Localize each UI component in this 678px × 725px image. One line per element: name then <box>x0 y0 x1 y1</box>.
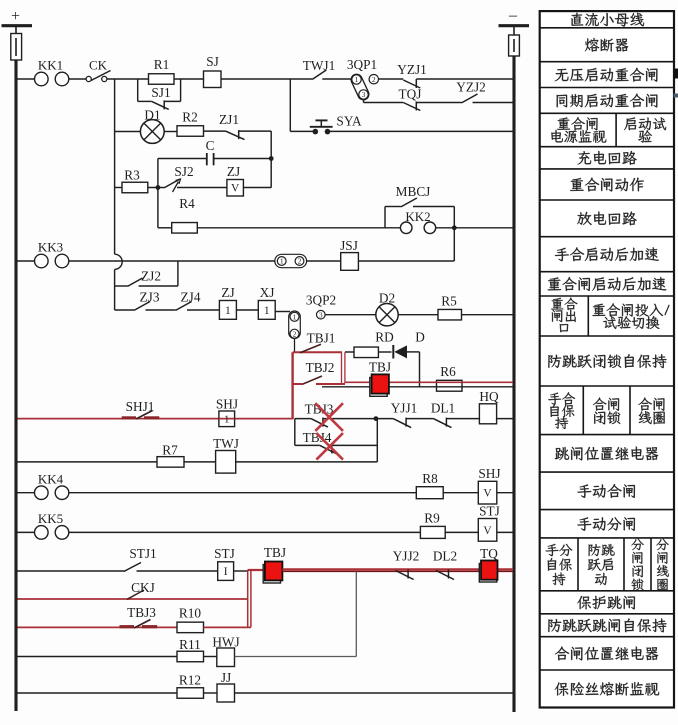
svg-text:CK: CK <box>89 58 108 73</box>
relay coil ZJ (current 1) <box>219 301 236 320</box>
wire R1 to SJ <box>174 78 204 80</box>
svg-text:YJJ1: YJJ1 <box>391 401 418 416</box>
svg-text:KK1: KK1 <box>38 58 63 73</box>
power bus - (right DC bus) <box>499 7 530 712</box>
contact YJJ2 <box>396 570 414 580</box>
legend cell: 启动试验 <box>624 117 666 142</box>
legend cell: 分闸闭锁 <box>631 539 643 591</box>
wire ZJ3 to ZJ4 <box>146 309 176 311</box>
svg-text:+: + <box>11 8 20 25</box>
label ZJ3 <box>140 290 160 305</box>
label STJ-I <box>214 546 235 561</box>
legend table frame <box>540 11 674 707</box>
svg-text:1: 1 <box>355 75 359 84</box>
legend cell: 合闸闭锁 <box>593 398 620 425</box>
label YJJ2 <box>393 549 420 564</box>
label RD <box>375 330 394 345</box>
contact ZJ1 (NC) <box>226 130 245 140</box>
contact TWJ1 <box>312 70 326 79</box>
wire SJ to TWJ1 <box>221 78 312 80</box>
wire SJ2 to ZJ coil <box>177 187 227 189</box>
svg-text:I: I <box>224 566 228 578</box>
svg-text:D1: D1 <box>144 108 160 123</box>
node TBJ3-YJJ1 junction <box>374 416 379 421</box>
label TQJ <box>399 87 422 102</box>
legend row text: 熔断器 <box>585 38 628 52</box>
svg-text:ZJ3: ZJ3 <box>140 290 160 305</box>
label JSJ <box>340 238 358 253</box>
wire diode to R6 row <box>407 352 420 387</box>
wire TBJ3 row <box>295 419 311 446</box>
contact YZJ2 <box>462 94 478 103</box>
svg-text:ZJ: ZJ <box>221 285 234 300</box>
contact CKJ <box>127 590 144 599</box>
switch contact KK3 <box>35 240 69 268</box>
legend row text: 防跳跃跳闸自保持 <box>548 618 666 632</box>
wire ZJ coil to corner <box>243 187 271 189</box>
svg-text:R5: R5 <box>441 294 457 309</box>
contact YZJ1 (NC) <box>403 79 420 88</box>
label R1 <box>154 57 170 72</box>
contact SHJ1 (red pads) <box>122 411 160 420</box>
relay coil XJ <box>258 301 275 320</box>
wire YZJ1 to right bus <box>416 78 513 80</box>
legend row text: 同期启动重合闸 <box>557 94 658 108</box>
signal lamp D2 <box>376 304 398 326</box>
label R11 <box>179 637 201 652</box>
wire vert to ZJ3 <box>115 309 134 311</box>
svg-text:2: 2 <box>293 329 297 338</box>
legend row text: 保险丝熔断监视 <box>555 682 659 696</box>
legend cell: 重合闸投入试验切换 <box>592 303 669 329</box>
label TBJ4 <box>303 430 332 445</box>
wire JJ to right bus <box>235 692 514 694</box>
wire left-bus to KK5 <box>18 531 35 533</box>
diode D <box>393 345 407 359</box>
label CKJ <box>131 580 155 595</box>
arrow of SJ2 time contact <box>173 179 181 192</box>
label D <box>415 330 425 345</box>
legend col splits row13 <box>583 386 630 435</box>
connector 3QP2 pin 2 <box>290 329 299 338</box>
legend cell: 重合闸出口 <box>551 298 577 333</box>
connector 3QP2 pin 3 <box>317 310 326 319</box>
svg-text:2: 2 <box>372 75 376 84</box>
svg-text:R2: R2 <box>182 110 198 125</box>
node KK2-MBCJ junction <box>452 225 457 230</box>
wire R2 to ZJ1 <box>204 130 226 132</box>
svg-text:V: V <box>231 183 240 195</box>
edge artifact marks <box>674 69 678 98</box>
label TBJ1 <box>307 331 336 346</box>
resistor R6 <box>437 380 463 391</box>
svg-text:3QP2: 3QP2 <box>306 293 336 308</box>
wire bus-vert to R3 <box>115 187 122 189</box>
legend row text: 手合启动后加速 <box>555 247 659 261</box>
svg-text:R9: R9 <box>424 511 440 526</box>
label DL2 <box>433 549 457 564</box>
wire ZJ2 up to KK3 row <box>139 261 178 286</box>
svg-text:3: 3 <box>362 90 366 99</box>
wire TQJ to YZJ2 <box>416 102 461 104</box>
wire left-bus JJ row <box>18 692 178 694</box>
switch contact KK1 <box>35 58 69 86</box>
label R3 <box>124 168 140 183</box>
svg-text:ZJ: ZJ <box>227 164 240 179</box>
svg-text:DL1: DL1 <box>431 401 455 416</box>
svg-text:3: 3 <box>319 310 323 319</box>
label STJ-V <box>479 504 500 519</box>
label XJ <box>260 285 275 300</box>
resistor R9 <box>420 526 445 538</box>
relay coil TBJ (series, red) <box>370 374 389 396</box>
wire YZJ2 to right bus <box>473 102 514 104</box>
legend row text: 跳闸位置继电器 <box>555 447 659 461</box>
svg-text:SJ: SJ <box>206 54 219 69</box>
resistor R11 <box>177 651 204 662</box>
contact TBJ3 lower (red pads) <box>120 620 158 629</box>
wire R4 to KK2 <box>197 227 400 229</box>
legend cell: 手分自保持 <box>546 544 573 586</box>
label TBJ3 lower <box>127 605 156 620</box>
legend row text: 手动分闸 <box>577 517 635 531</box>
wire HQ to right bus <box>497 418 513 420</box>
legend row text: 重合闸动作 <box>570 178 644 192</box>
wire R12 to JJ <box>204 692 218 694</box>
legend row text: 重合闸启动后加速 <box>548 277 667 291</box>
label R12 <box>179 673 201 688</box>
legend col splits row17 <box>578 538 651 591</box>
svg-text:TWJ1: TWJ1 <box>303 58 336 73</box>
label HWJ <box>212 635 239 650</box>
wire YJJ1 lead <box>376 418 393 420</box>
svg-text:1: 1 <box>264 305 270 317</box>
svg-text:CKJ: CKJ <box>131 580 155 595</box>
contact SJ1 (NC, shorts R1) <box>152 100 169 109</box>
wire SJ-TWJ1 node down to SYA row <box>290 79 313 131</box>
svg-text:SJ2: SJ2 <box>174 164 193 179</box>
label YZJ1 <box>397 62 427 77</box>
legend row text: 合闸位置继电器 <box>555 647 658 661</box>
switch contact KK5 <box>35 511 69 539</box>
wire KK3 to connector <box>69 260 276 262</box>
wire left-bus to KK4 <box>18 492 35 494</box>
wire ZJ4 to ZJ coil <box>187 309 219 311</box>
label C <box>206 138 215 153</box>
svg-text:R10: R10 <box>179 606 202 621</box>
legend col split row11 <box>587 296 589 336</box>
resistor R2 <box>177 126 204 137</box>
svg-text:C: C <box>206 138 215 153</box>
svg-text:TBJ3: TBJ3 <box>127 605 156 620</box>
relay coil SHJ (voltage) <box>478 481 497 504</box>
contact SJ2 (time delay) <box>164 179 180 188</box>
contact TBJ3 (NC) <box>311 418 328 428</box>
svg-text:3QP1: 3QP1 <box>347 57 377 72</box>
svg-text:XJ: XJ <box>260 285 275 300</box>
svg-text:–: – <box>508 7 518 24</box>
switch contact KK4 <box>35 472 69 500</box>
contact TBJ1 <box>300 344 321 352</box>
svg-text:KK4: KK4 <box>38 472 64 487</box>
red vertical pair (trip self-hold) <box>248 570 251 628</box>
wire XJ to 3QP2 <box>275 311 290 313</box>
svg-text:TBJ: TBJ <box>264 545 286 560</box>
resistor RD <box>354 347 378 358</box>
svg-text:STJ: STJ <box>214 546 235 561</box>
wire JSJ to MBCJ node <box>358 228 454 261</box>
svg-text:SYA: SYA <box>336 114 362 129</box>
legend row text: 手动合闸 <box>577 484 635 498</box>
legend cell: 分闸线圈 <box>656 539 668 591</box>
wire D2 to R5 <box>398 314 438 316</box>
relay coil STJ (voltage) <box>478 519 497 542</box>
relay coil TWJ <box>216 451 236 474</box>
svg-text:YZJ2: YZJ2 <box>456 80 486 95</box>
label R4 <box>179 196 195 211</box>
label SHJ1 <box>126 399 155 414</box>
label D2 <box>379 291 395 306</box>
legend cell: 防跳跃启动 <box>588 544 615 585</box>
svg-text:1: 1 <box>225 305 231 317</box>
wire KK4 to R8 <box>69 492 417 494</box>
wire R7 to TWJ <box>184 461 216 463</box>
legend row text: 放电回路 <box>577 211 636 225</box>
wire R10 to red vertical <box>204 626 251 628</box>
wire connector to JSJ <box>307 260 341 262</box>
svg-text:D: D <box>415 330 425 345</box>
wire red line to bus (reclose exit) <box>345 381 513 383</box>
legend cell: 合闸线圈 <box>638 398 665 425</box>
wire cap row left <box>158 158 207 160</box>
label R8 <box>422 471 438 486</box>
wire 3QP2 pin3 to D2 <box>325 314 376 316</box>
wire TBJ2 row red pads <box>293 383 345 385</box>
switch contact KK2 <box>400 209 435 234</box>
resistor R12 <box>177 688 204 699</box>
wire ZJ1 to corner <box>239 131 272 188</box>
label JJ <box>221 670 231 685</box>
wire CK to node <box>107 78 149 80</box>
wire left-bus to KK3 <box>18 260 35 262</box>
svg-text:R11: R11 <box>179 637 201 652</box>
contact ZJ2 <box>128 278 143 286</box>
legend row text: 无压启动重合闸 <box>555 68 658 82</box>
wire SJ1 branch <box>138 79 181 101</box>
label SJ <box>206 54 219 69</box>
red X over TBJ3 <box>315 403 343 431</box>
wire red vertical (reclose output) <box>291 352 293 419</box>
time relay coil SJ <box>204 71 222 88</box>
label HQ <box>479 389 499 404</box>
wire TQ row red <box>282 570 513 572</box>
label SYA <box>336 114 362 129</box>
label SJ2 <box>174 164 193 179</box>
wire TWJ1 to 3QP1 pin1 <box>322 78 352 80</box>
wire CKJ row red <box>18 598 248 600</box>
label TBJ3 <box>305 402 334 417</box>
wire R11 to HWJ <box>204 656 217 658</box>
wire R4 row left <box>158 227 172 229</box>
contact DL1 <box>433 418 451 428</box>
wire HWJ up to trip row <box>235 572 357 657</box>
wire R8 to SHJ coil <box>443 492 478 494</box>
legend cell: 重合闸电源监视 <box>551 117 606 143</box>
resistor R7 <box>157 457 184 468</box>
label 3QP1 <box>347 57 377 72</box>
svg-text:SHJ: SHJ <box>216 397 238 412</box>
svg-text:ZJ4: ZJ4 <box>181 290 201 305</box>
legend table row lines <box>540 28 674 670</box>
svg-text:R12: R12 <box>179 673 201 688</box>
wire SYA to right bus <box>330 130 513 132</box>
wire TBJ4 row left <box>295 444 320 446</box>
svg-text:1: 1 <box>224 414 230 426</box>
contact MBCJ <box>401 198 417 207</box>
svg-text:STJ1: STJ1 <box>129 546 156 561</box>
wire left-bus to KK1 <box>18 78 35 80</box>
svg-text:R8: R8 <box>422 471 438 486</box>
svg-text:DL2: DL2 <box>433 549 457 564</box>
label D1 <box>144 108 160 123</box>
contact DL2 <box>436 570 454 580</box>
svg-text:2: 2 <box>298 257 302 266</box>
connector 3QP1 pin 1 <box>352 75 361 84</box>
wire ZJ to XJ <box>236 309 258 311</box>
label TWJ1 <box>303 58 336 73</box>
wire TBJ1 row to RD <box>345 351 354 353</box>
legend row text: 直流小母线 <box>571 13 644 27</box>
svg-text:1: 1 <box>293 312 297 321</box>
label ZJ4 <box>181 290 201 305</box>
contact TBJ2 <box>302 376 322 384</box>
connector 3QP1 pin 3 <box>359 90 368 99</box>
label TBJ coil1 <box>369 360 391 375</box>
wire D1 to R2 <box>164 131 177 133</box>
wire YJJ1 to DL1 <box>406 418 433 420</box>
wire SHJ to right bus <box>497 492 513 494</box>
svg-text:TBJ: TBJ <box>369 360 391 375</box>
svg-text:SHJ: SHJ <box>478 466 500 481</box>
svg-text:ZJ2: ZJ2 <box>141 269 161 284</box>
node R3-SJ2 junction <box>156 185 161 190</box>
label DL1 <box>431 401 455 416</box>
svg-text:JJ: JJ <box>221 670 231 685</box>
wire 3QP2 pin2 down (red path top) <box>294 339 296 353</box>
wire STJ coil to TBJ coil <box>234 570 266 571</box>
svg-text:R6: R6 <box>440 364 456 379</box>
svg-text:R3: R3 <box>124 168 140 183</box>
wire KK2 to node <box>436 227 513 229</box>
svg-text:R7: R7 <box>162 443 178 458</box>
relay coil HWJ <box>217 648 235 667</box>
connector 3QP2 plug capsule <box>289 311 301 339</box>
label R7 <box>162 443 178 458</box>
fuse FU2 (right bus fuse) <box>509 35 520 56</box>
svg-text:TBJ3: TBJ3 <box>305 402 334 417</box>
label TBJ coil2 <box>264 545 286 560</box>
wire STJ to right bus <box>497 531 513 533</box>
label YZJ2 <box>456 80 486 95</box>
label STJ1 <box>129 546 156 561</box>
wire to lamp D1 <box>115 131 141 133</box>
wire KK1 to CK <box>69 78 86 80</box>
label YJJ1 <box>391 401 418 416</box>
label ZJ1 <box>219 112 239 127</box>
wire TWJ to vertical <box>236 461 378 463</box>
svg-text:TBJ1: TBJ1 <box>307 331 336 346</box>
contact TBJ4 (NC) <box>320 444 337 454</box>
relay coil SHJ (series 1) <box>219 411 235 427</box>
fuse FU1 (left bus fuse) <box>11 34 22 61</box>
svg-text:YJJ2: YJJ2 <box>393 549 420 564</box>
label R2 <box>182 110 198 125</box>
svg-text:RD: RD <box>375 330 394 345</box>
wire left-bus TWJ row <box>18 461 158 463</box>
svg-text:KK3: KK3 <box>38 240 63 255</box>
label R9 <box>424 511 440 526</box>
svg-text:HWJ: HWJ <box>212 635 239 650</box>
connector 3QP1 plug capsule <box>349 72 370 101</box>
svg-text:1: 1 <box>280 257 284 266</box>
wire R3 to SJ2 <box>148 187 164 189</box>
label R5 <box>441 294 457 309</box>
resistor R5 <box>438 309 462 320</box>
svg-text:JSJ: JSJ <box>340 238 358 253</box>
push button SYA <box>310 120 333 134</box>
label SJ1 <box>151 85 170 100</box>
capacitor C <box>207 153 214 165</box>
label 3QP2 <box>306 293 336 308</box>
connector capsule on KK3 row <box>275 254 307 267</box>
svg-text:D2: D2 <box>379 291 395 306</box>
closing coil HQ <box>479 404 496 424</box>
relay coil TBJ (parallel, red) <box>263 562 282 584</box>
wire cap row right <box>214 158 271 160</box>
switch CK <box>86 58 110 82</box>
svg-text:TQJ: TQJ <box>399 87 422 102</box>
label R6 <box>440 364 456 379</box>
wire TBJ1 row red <box>293 351 342 353</box>
label ZJ-1 <box>221 285 234 300</box>
resistor R8 <box>416 487 443 499</box>
wire STJ1 to STJ coil <box>137 570 218 572</box>
wire vert to ZJ2 <box>115 285 128 287</box>
label SHJ-V <box>478 466 500 481</box>
wire left-bus to STJ1 <box>18 570 125 572</box>
svg-text:R4: R4 <box>179 196 195 211</box>
svg-text:ZJ1: ZJ1 <box>219 112 239 127</box>
legend row text: 充电回路 <box>578 151 637 165</box>
relay coil JJ <box>217 684 235 702</box>
wire SHJ1 row red (left bus to SHJ) <box>18 418 293 420</box>
resistor R1 <box>149 74 175 85</box>
svg-text:TBJ2: TBJ2 <box>306 360 335 375</box>
contact YJJ1 <box>393 418 411 428</box>
contact ZJ4 <box>176 302 192 311</box>
legend row text: 保护跳闸 <box>577 596 635 610</box>
wire CK node down (with hop over KK3 row) <box>115 79 123 310</box>
legend cell: 手合自保持 <box>548 392 575 429</box>
wire vertical x157.9 (C row to R4 row) <box>157 159 159 228</box>
wire TBJ2 row black <box>322 386 513 388</box>
relay coil ZJ (voltage) <box>227 180 244 197</box>
svg-text:MBCJ: MBCJ <box>396 184 431 199</box>
legend row text: 防跳跃闭锁自保持 <box>548 354 666 368</box>
wire TBJ3 to node <box>323 418 376 420</box>
label ZJ-V <box>227 164 240 179</box>
relay coil JSJ <box>341 253 359 271</box>
